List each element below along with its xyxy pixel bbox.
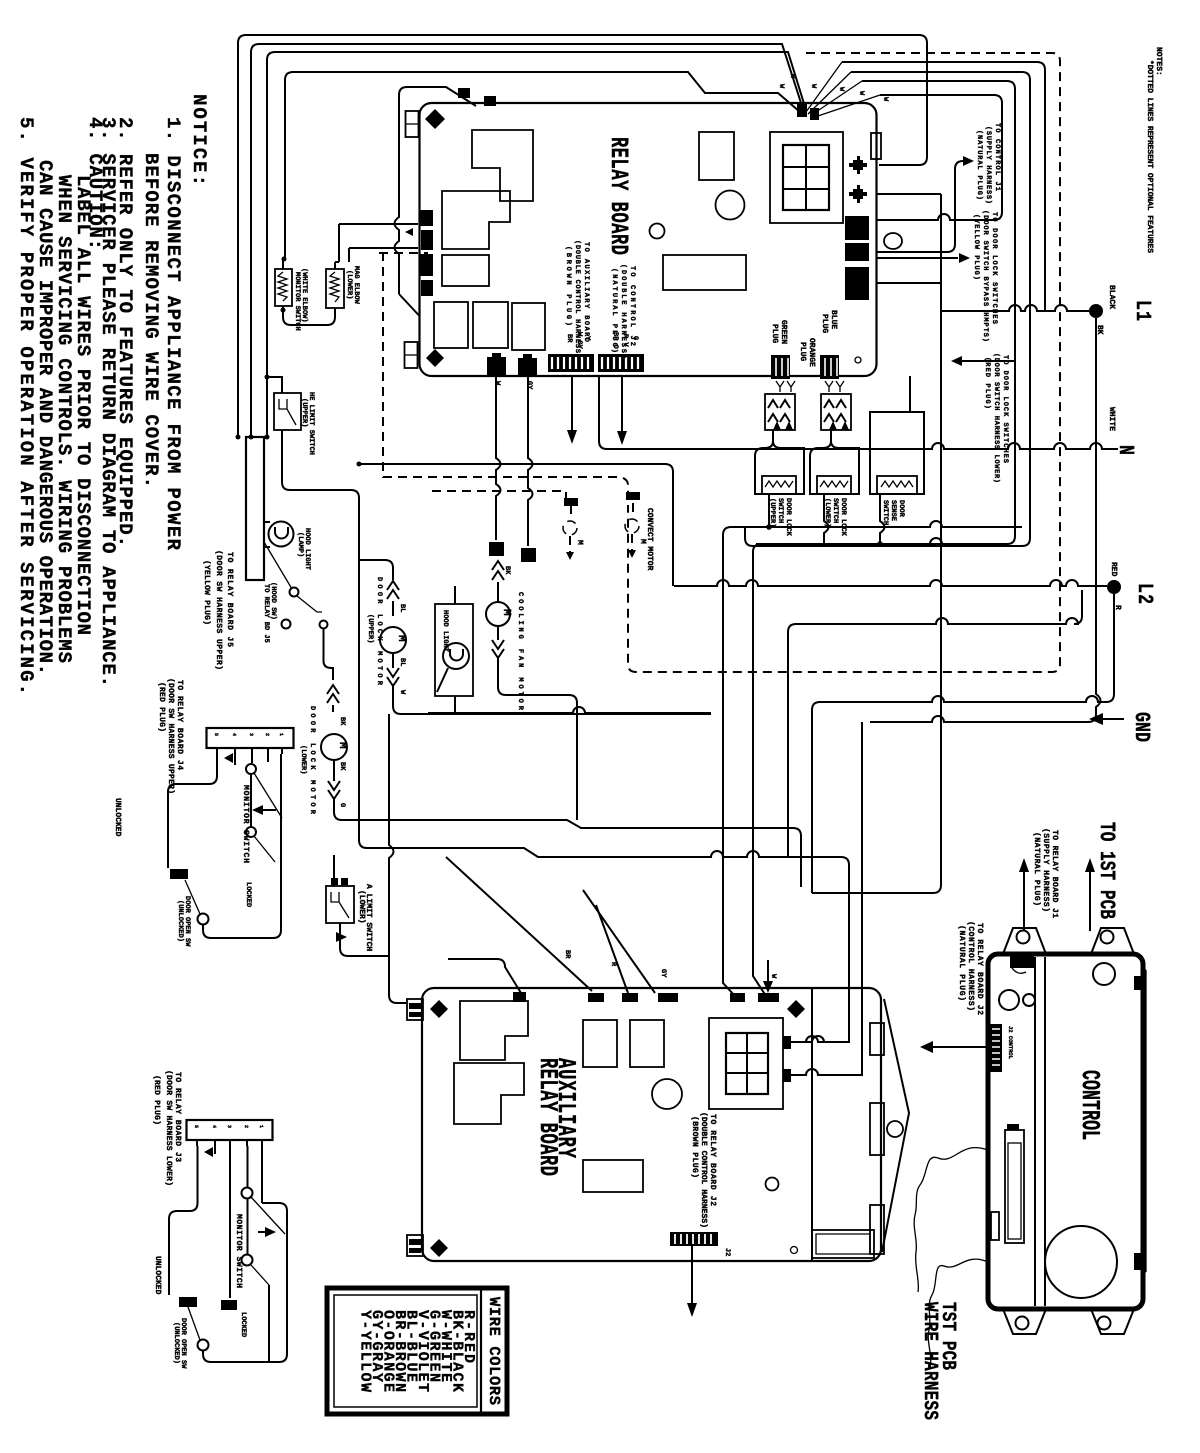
aux mount diamond bottom-left (430, 1239, 448, 1257)
node L2 (1107, 562, 1157, 610)
svg-text:NOTES:: NOTES: (1154, 47, 1163, 76)
blade pivot 3 (185, 880, 200, 914)
aux left stub bottom (407, 1235, 423, 1256)
wire bus1 door lock switches (723, 521, 1022, 535)
svg-text:TO CONTROL J1: TO CONTROL J1 (993, 123, 1001, 191)
edge connector comb strip 2 (598, 354, 644, 372)
wire pin3 to pivot1 (251, 754, 253, 763)
chevrons down motor upper (387, 653, 399, 686)
wire filter tops (283, 258, 339, 269)
wire pin3 lower long (229, 1146, 231, 1298)
wire bundle line 1 (238, 35, 927, 437)
svg-text:(NATURAL PLUG): (NATURAL PLUG) (975, 130, 984, 200)
wire pin5 lower (261, 1146, 263, 1203)
wire pin2 stub (234, 754, 236, 765)
pad labels (493, 381, 533, 390)
aux rect c1 (583, 1020, 617, 1067)
label TST PCB WIRE HARNESS (919, 1302, 960, 1420)
door lock motor upper chain (359, 560, 393, 580)
svg-text:TO RELAY BOARD J3: TO RELAY BOARD J3 (173, 1072, 182, 1162)
dashed optional boundary top-right (628, 53, 1060, 672)
svg-text:(NATURAL PLUG): (NATURAL PLUG) (957, 925, 966, 1001)
svg-text:SWITCH: SWITCH (776, 498, 784, 523)
hood switch blade 2 (297, 596, 322, 612)
aux oval (887, 1121, 903, 1137)
aux bottom-right connector housing (812, 1230, 874, 1258)
connector block stack right 3 (845, 267, 869, 300)
svg-text:PLUG: PLUG (820, 314, 829, 333)
chevrons up cooling fan (492, 561, 504, 580)
svg-text:(LOWER): (LOWER) (345, 270, 354, 299)
wire monitor lower bottom (203, 1203, 287, 1362)
relay K1 (472, 130, 533, 201)
svg-text:1. DISCONNECT APPLIANCE FROM P: 1. DISCONNECT APPLIANCE FROM POWER (162, 117, 184, 551)
door lock switch upper body (755, 430, 804, 494)
svg-text:RELAY BOARD: RELAY BOARD (603, 137, 631, 255)
hood light upper lamp (264, 522, 294, 548)
pad dashed left (564, 498, 578, 506)
svg-text:TO RELAY BOARD J4: TO RELAY BOARD J4 (175, 680, 184, 770)
svg-text:(DOOR SWITCH BYPASS HMPTS): (DOOR SWITCH BYPASS HMPTS) (981, 210, 990, 342)
control tall connector (991, 1130, 1024, 1243)
control top edge connector blob (1010, 956, 1034, 968)
wire J1 supply arrow up (1023, 870, 1025, 931)
chevrons down cooling fan (492, 626, 504, 658)
hood switch pivot 2 (282, 620, 291, 629)
cooling fan motor (486, 582, 512, 626)
label ORANGE PLUG (798, 338, 816, 367)
connector box board left top (406, 111, 419, 137)
svg-text:L1: L1 (1131, 300, 1156, 321)
label to relay board J1 supply (1032, 828, 1059, 918)
wire top run to right rail x1045 (842, 62, 1045, 311)
svg-text:SWITCH: SWITCH (831, 498, 839, 523)
relay K5 long rect (663, 255, 746, 290)
wire chain hood sw to motor (324, 629, 334, 680)
aux rect c2 (630, 1020, 664, 1067)
svg-text:BLACK: BLACK (1107, 285, 1116, 309)
pads above A limit switch (331, 878, 348, 885)
svg-text:WHITE: WHITE (1107, 407, 1116, 431)
svg-text:BL: BL (398, 658, 406, 666)
wire board edge y194 (877, 193, 941, 195)
label TO CONTROL J1 (975, 123, 1001, 204)
wire top run to right rail x1030 and bus1 (745, 72, 1030, 546)
label noise filter upper (293, 268, 309, 331)
label door open sw lower (172, 1318, 187, 1369)
svg-text:MONITOR SWITCH: MONITOR SWITCH (293, 272, 301, 331)
label door lock switch upper (768, 498, 792, 537)
wire between pivots lower (247, 1199, 249, 1254)
wire monitor upper bottom (203, 754, 281, 938)
wire motor upper bottom (393, 686, 711, 714)
svg-text:TO RELAY BOARD J2: TO RELAY BOARD J2 (708, 1114, 717, 1206)
wire x389 drop to aux stub (389, 714, 406, 1003)
svg-text:(UPPER): (UPPER) (366, 614, 375, 643)
monitor lower pivot 2 (242, 1255, 253, 1266)
arrow down into aux pad W (767, 960, 769, 985)
svg-text:(UPPER): (UPPER) (300, 398, 309, 427)
wire pad W labels (777, 74, 889, 102)
label TO AUXILIARY BOARD (564, 240, 590, 358)
circle hole big (716, 191, 745, 220)
wire y713 run (428, 707, 711, 713)
mount hole diamond bottom-left (426, 349, 444, 367)
svg-text:WIRE HARNESS: WIRE HARNESS (919, 1302, 942, 1420)
A limit switch (326, 886, 354, 923)
pad pin3 lower (221, 1300, 237, 1310)
wire diagonal feed to aux pad a (446, 857, 592, 991)
pad bottom edge a (487, 353, 506, 375)
label TO DOOR LOCK SWITCHES yellow (972, 210, 998, 342)
pad monitor upper (170, 869, 188, 879)
svg-text:HOOD LIGHT: HOOD LIGHT (441, 610, 449, 652)
label to relay board red plug upper (157, 678, 184, 794)
monitor lower pivot 1 (242, 1188, 253, 1199)
svg-text:PLUG: PLUG (798, 342, 807, 361)
label door lock motor upper (366, 577, 383, 686)
aux relay R1 stepped (460, 1001, 528, 1060)
svg-text:TO RELAY BOARD J2: TO RELAY BOARD J2 (975, 923, 984, 1015)
svg-text:M: M (638, 539, 647, 544)
aux title (532, 1058, 579, 1176)
svg-text:(DOOR SW HARNESS UPPER): (DOOR SW HARNESS UPPER) (214, 550, 223, 670)
control connector pin mark (1007, 1124, 1019, 1130)
svg-text:3: 3 (248, 733, 254, 736)
pad cluster on board top edge (797, 103, 819, 120)
wire HE switch top (267, 377, 282, 393)
door lock motor lower (321, 734, 348, 760)
label BLUE PLUG (820, 310, 838, 333)
svg-text:ORANGE: ORANGE (807, 338, 816, 367)
svg-text:(DOUBLE CONTROL HARNESS): (DOUBLE CONTROL HARNESS) (699, 1112, 708, 1228)
hood switch blade from strip (264, 542, 292, 589)
svg-text:1: 1 (278, 733, 284, 736)
blade lower pivot 2 (251, 1265, 269, 1285)
svg-text:TO AUXILIARY BOARD: TO AUXILIARY BOARD (582, 242, 590, 342)
wire into left connector y224 (339, 224, 418, 262)
wire body1 riser to bus1 (768, 494, 770, 527)
wire monitor upper loop (168, 754, 217, 868)
label GREEN PLUG (770, 320, 788, 344)
svg-text:LOCKED: LOCKED (239, 1312, 247, 1337)
svg-text:TO RELAY BD J5: TO RELAY BD J5 (262, 584, 270, 643)
wire bundle line 3 (267, 52, 806, 437)
wire inner vertical lower (268, 1285, 270, 1362)
YY arrows stub 1 (776, 381, 795, 392)
blade lower pivot 1 (251, 1197, 285, 1234)
svg-text:2: 2 (264, 733, 270, 736)
TST PCB harness squiggle bottom (928, 1259, 988, 1368)
wire fan diagonal a (806, 62, 842, 112)
label to relay board J2 brown (690, 1112, 717, 1228)
svg-text:3: 3 (226, 1125, 232, 1128)
orange plug stub connector (820, 355, 839, 379)
monitor upper arrow mid (262, 809, 276, 811)
node GND (1089, 712, 1154, 742)
pad W on diagonal (458, 88, 496, 106)
svg-text:MONITOR SWITCH: MONITOR SWITCH (241, 785, 250, 863)
wire board bottom arrow 1 (571, 376, 573, 432)
svg-text:RED: RED (1109, 562, 1118, 577)
svg-text:4: 4 (231, 733, 237, 736)
svg-text:(CONTROL HARNESS): (CONTROL HARNESS) (966, 921, 975, 1011)
aux left stub top (407, 999, 423, 1020)
control box outline (988, 954, 1143, 1309)
label door lock motor lower (299, 706, 316, 815)
oval O right of board (884, 233, 902, 249)
dashed optional boundary left (379, 252, 628, 500)
control left edge comb (990, 1024, 1002, 1072)
TST PCB harness squiggle top (914, 1148, 988, 1292)
svg-text:(DOOR SWITCH HARNESS LOWER): (DOOR SWITCH HARNESS LOWER) (992, 353, 1001, 483)
svg-text:M: M (500, 609, 512, 616)
wire aux grid pads right (791, 1036, 854, 1075)
wire riser bus1 to aux pad (723, 535, 735, 996)
junction dots bundle (236, 435, 241, 440)
wire y464 L2 feed (359, 464, 673, 586)
wire sense switch riser (880, 494, 885, 544)
relay K7 rect (473, 302, 508, 348)
blade lower pivot 3 (188, 1307, 200, 1340)
svg-text:UNLOCKED: UNLOCKED (153, 1256, 162, 1295)
edge connector pads left (419, 210, 433, 296)
door lock motor upper (380, 627, 407, 653)
svg-text:L2: L2 (1133, 583, 1158, 604)
board right edge tab (871, 133, 881, 159)
svg-text:TO RELAY BOARD J1: TO RELAY BOARD J1 (1050, 830, 1059, 918)
hood light lower box (435, 604, 473, 696)
svg-text:(RED PLUG): (RED PLUG) (983, 357, 992, 409)
control ear bottom-right (1091, 1309, 1134, 1334)
notice text block (15, 94, 210, 695)
wire hood light lower bottom (454, 696, 456, 713)
wire L2 drop and y702 run (812, 594, 1114, 893)
wire diagonal feed to aux pad c (596, 905, 628, 993)
svg-text:M: M (575, 540, 584, 545)
wire L1 drop and y722 run (870, 318, 1101, 722)
pad plus right b (849, 185, 867, 203)
wire aux feed left bend (448, 959, 521, 993)
label door lock switch lower (823, 498, 847, 537)
svg-text:DOOR: DOOR (897, 500, 905, 518)
svg-text:(RED PLUG): (RED PLUG) (157, 682, 166, 732)
svg-text:5. VERIFY PROPER OPERATION AFT: 5. VERIFY PROPER OPERATION AFTER SERVICI… (15, 117, 37, 695)
svg-text:(UNLOCKED): (UNLOCKED) (176, 900, 185, 942)
chevrons up motor upper (387, 581, 399, 616)
svg-text:J2 CONTROL: J2 CONTROL (1007, 1026, 1014, 1060)
aux relay R2 stepped (454, 1063, 524, 1124)
label convect motor (575, 508, 654, 571)
wire aux bottom arrow (691, 1246, 693, 1305)
wire motor lower to y820 (334, 799, 801, 887)
junction dot filters (281, 308, 286, 313)
monitor switch block lower connector (187, 1120, 273, 1146)
door lock switch lower body (810, 430, 859, 494)
svg-text:SENSE: SENSE (889, 500, 897, 521)
control right bracket line (1143, 970, 1146, 1272)
svg-text:PLUG: PLUG (770, 324, 779, 343)
wire L2 rail (674, 580, 1107, 586)
svg-text:(DOOR SW HARNESS LOWER): (DOOR SW HARNESS LOWER) (164, 1070, 173, 1186)
svg-text:(YELLOW PLUG): (YELLOW PLUG) (202, 560, 211, 625)
svg-text:NOTICE:: NOTICE: (188, 94, 210, 186)
svg-text:UNLOCKED: UNLOCKED (113, 798, 122, 837)
monitor lower arrow mid (258, 1231, 272, 1233)
wire y624 run (788, 590, 1082, 857)
monitor switch block upper connector (207, 728, 294, 754)
dashed convect motor left (563, 505, 577, 552)
door lock motor lower chain pivot (320, 621, 328, 629)
HE limit switch (274, 393, 301, 430)
notes text top-right (1145, 47, 1163, 253)
svg-text:MONITOR SWITCH: MONITOR SWITCH (234, 1214, 243, 1288)
aux mount diamond top-right (787, 1000, 805, 1018)
wire chassis corner at board top-left (395, 87, 477, 316)
relay K2 (442, 191, 510, 249)
svg-text:RELAY BOARD: RELAY BOARD (532, 1058, 561, 1176)
connector box board left bottom (405, 342, 418, 368)
svg-text:TO DOOR LOCK SWITCHES: TO DOOR LOCK SWITCHES (1001, 355, 1009, 463)
svg-text:BK: BK (503, 566, 511, 575)
svg-text:TO RELAY BOARD J5: TO RELAY BOARD J5 (225, 552, 234, 647)
node L1 (1089, 285, 1155, 335)
control right nub a (1134, 976, 1142, 990)
svg-text:(LAMP): (LAMP) (296, 532, 305, 557)
svg-text:5: 5 (213, 733, 219, 736)
YY arrows stub 2 (825, 381, 844, 392)
label hood light (296, 528, 311, 570)
svg-text:GREEN: GREEN (779, 320, 788, 344)
svg-text:(BROWN PLUG): (BROWN PLUG) (690, 1116, 699, 1178)
svg-text:BR: BR (565, 334, 573, 343)
arrow left connector (405, 228, 413, 236)
svg-text:(NATURAL PLUG): (NATURAL PLUG) (1032, 832, 1041, 906)
wire A limit top (333, 855, 335, 886)
wire x941 long vertical (812, 194, 941, 893)
label TO DOOR LOCK SWITCHES red (983, 353, 1009, 483)
green plug stub connector (771, 355, 790, 379)
aux long rect (583, 1160, 643, 1192)
wire J1 supply arrow (877, 161, 963, 252)
label to relay board red plug lower (152, 1070, 182, 1186)
wire x862 drop to aux pad (854, 722, 862, 1075)
connector block stack right 2 (845, 243, 869, 261)
label door open sw upper (176, 896, 191, 947)
wire board pad drop a (496, 376, 501, 540)
control ear top-right (1091, 928, 1134, 954)
relay K4 rect (699, 132, 734, 180)
label noise filter lower (345, 266, 360, 305)
svg-text:G: G (338, 803, 346, 807)
pad dashed right (626, 492, 640, 500)
label A limit switch (357, 884, 373, 951)
wire N rail (599, 376, 1118, 449)
wire 1ST PCB arrow up (1089, 870, 1091, 931)
svg-text:GY: GY (659, 969, 667, 978)
node N (1107, 407, 1138, 455)
svg-text:CONTROL: CONTROL (1075, 1070, 1104, 1140)
noise filter upper (275, 269, 292, 306)
wire red plug arrow (961, 360, 1014, 362)
aux tiny circle (791, 1247, 798, 1254)
wire bus2 door lock switches (753, 538, 1007, 552)
blade pivot 1 (254, 773, 282, 818)
wire board edge y283 (877, 282, 941, 284)
wire cooling fan bottom (498, 658, 577, 820)
relay K3 rect (442, 255, 489, 286)
svg-text:GND: GND (1130, 712, 1155, 742)
wire fan diagonal b (808, 72, 851, 114)
svg-text:(UNLOCKED): (UNLOCKED) (172, 1322, 181, 1364)
aux mount diamond top-left (430, 1000, 448, 1018)
aux board harness bulge (882, 999, 909, 1252)
wire body2 riser to bus2 (824, 494, 829, 544)
monitor upper pivot 1 (246, 764, 256, 774)
aux pad labels (563, 950, 777, 979)
comb strip labels (565, 332, 639, 350)
aux right tab 1 (870, 1023, 884, 1055)
aux bottom comb connector (670, 1232, 718, 1246)
svg-text:(SUPPLY HARNESS): (SUPPLY HARNESS) (984, 126, 993, 204)
relay K6 rect (434, 302, 468, 348)
svg-text:(LOWER): (LOWER) (357, 890, 366, 924)
svg-text:TO DOOR LOCK SWITCHES: TO DOOR LOCK SWITCHES (990, 212, 998, 324)
wire bundle line 4 (285, 72, 800, 258)
svg-text:BLUE: BLUE (829, 310, 838, 329)
label to relay board J5 yellow plug (202, 550, 234, 670)
svg-text:BEFORE REMOVING WIRE COVER.: BEFORE REMOVING WIRE COVER. (140, 153, 162, 488)
svg-text:COOLING FAN MOTOR: COOLING FAN MOTOR (516, 592, 524, 711)
tiny circle bottom right (855, 357, 861, 363)
label to relay board J2 natural (957, 921, 984, 1015)
svg-text:J2: J2 (723, 1248, 731, 1256)
svg-text:(DOUBLE CONTROL HARNESS): (DOUBLE CONTROL HARNESS) (573, 240, 582, 358)
relay K8 rect (512, 303, 545, 350)
svg-text:(RED PLUG): (RED PLUG) (152, 1075, 161, 1125)
control ear top-left (1003, 928, 1046, 954)
wire A limit bottom (340, 923, 389, 956)
control big circle (1045, 1226, 1117, 1298)
svg-text:DOOR LOCK MOTOR: DOOR LOCK MOTOR (375, 577, 383, 686)
svg-text:DOOR LOCK: DOOR LOCK (839, 498, 847, 537)
svg-text:BK: BK (338, 762, 346, 771)
aux right tab 3 (870, 1205, 884, 1254)
svg-text:BK: BK (338, 717, 346, 726)
wire L1 rail horizontal (941, 305, 1089, 311)
wire pin4 stub (267, 754, 269, 762)
wire fan diagonal d (812, 95, 880, 118)
dashed convect motor right (625, 503, 639, 550)
door sense switch body (870, 376, 924, 494)
hood switch pivot 1 (290, 588, 299, 597)
monitor upper pivot 2 (246, 827, 256, 837)
svg-text:DOOR LOCK MOTOR: DOOR LOCK MOTOR (308, 706, 316, 815)
aux board inner divider (811, 989, 813, 1260)
relay board outline (420, 103, 877, 376)
wire diagonal feed to aux pad b (583, 890, 655, 993)
svg-text:(LOWER): (LOWER) (299, 745, 308, 774)
label door sense switch (881, 500, 905, 525)
pad aux grid right b (783, 1069, 791, 1082)
svg-text:(SUPPLY HARNESS): (SUPPLY HARNESS) (1041, 828, 1050, 912)
wire filter bottoms U (283, 306, 335, 325)
svg-text:1: 1 (258, 1125, 264, 1128)
svg-text:LOCKED: LOCKED (244, 882, 252, 907)
svg-text:5: 5 (193, 1125, 199, 1128)
pad aux grid right a (783, 1036, 791, 1049)
wire HE switch bottom long drop (282, 430, 849, 1042)
